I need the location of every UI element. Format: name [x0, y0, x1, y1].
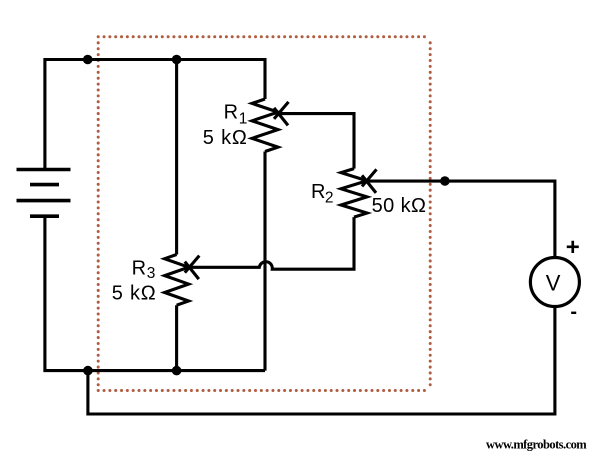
voltmeter V: [530, 258, 579, 307]
junction node B (top rail, R3 top): [172, 55, 182, 65]
resistor R1 (zigzag): [252, 99, 278, 152]
wire: battery bottom to bottom rail: [45, 216, 265, 370]
R3 wiper arrow: [185, 256, 200, 280]
svg-text:1: 1: [239, 111, 248, 128]
svg-text:www.mfgrobots.com: www.mfgrobots.com: [486, 438, 587, 452]
svg-text:R: R: [224, 101, 238, 123]
junction node A (top rail, battery tap): [83, 55, 93, 65]
wire: battery top to top rail to R1 top: [45, 60, 265, 170]
battery B1: [17, 170, 71, 217]
junction node E (R2 wiper wire): [440, 176, 450, 186]
svg-text:3: 3: [147, 265, 156, 282]
svg-text:50 kΩ: 50 kΩ: [372, 195, 427, 217]
R2 wiper arrow: [362, 169, 377, 193]
svg-text:+: +: [566, 234, 580, 261]
wire: bottom rail junction to voltmeter bottom: [88, 306, 555, 414]
wire: top rail to R3 top: [175, 60, 178, 255]
resistor R2 (zigzag): [341, 169, 367, 218]
svg-text:R: R: [132, 257, 146, 279]
svg-text:V: V: [546, 271, 561, 296]
wire: R1 wiper to R2 top: [279, 114, 355, 169]
R1 wiper arrow: [274, 102, 289, 126]
svg-text:R: R: [311, 181, 325, 203]
resistor R3 (zigzag): [165, 255, 189, 306]
junction node C (bottom rail, voltmeter tap): [83, 366, 93, 376]
dashed box (trimpot equivalent boundary): [98, 37, 430, 391]
wire: R3 bottom to bottom rail: [175, 305, 178, 370]
svg-text:5 kΩ: 5 kΩ: [203, 127, 248, 149]
junction node D (bottom rail, R3 bottom): [172, 366, 182, 376]
wire: R2 wiper right to voltmeter top: [367, 181, 555, 258]
svg-text:-: -: [570, 301, 577, 323]
svg-text:2: 2: [325, 189, 334, 206]
svg-text:5 kΩ: 5 kΩ: [112, 283, 157, 305]
wire: R1 bottom to bottom rail: [263, 152, 266, 371]
wire: R2 bottom to R3 wiper, with hop over R1 wire: [189, 217, 354, 269]
